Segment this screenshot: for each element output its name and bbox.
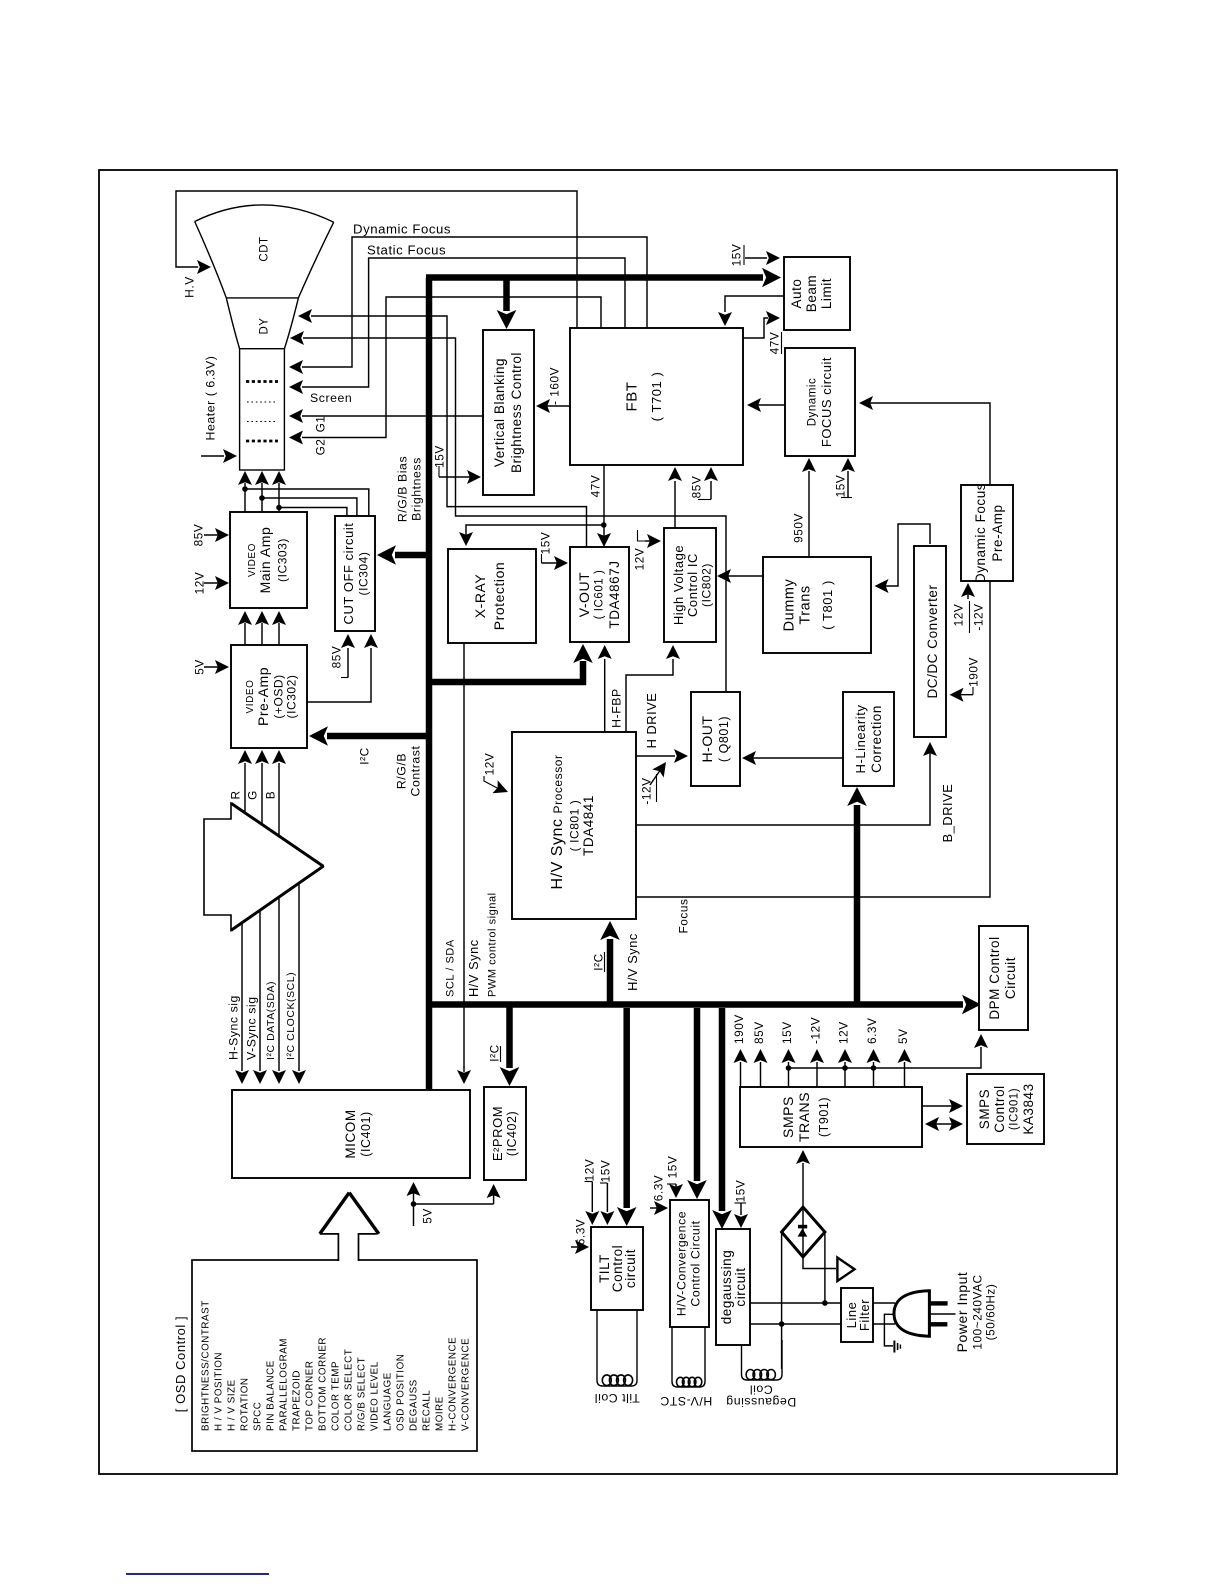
- svg-text:12V: 12V: [837, 1021, 851, 1044]
- svg-text:-12V: -12V: [640, 777, 654, 804]
- block H-OUT Q801: [691, 692, 740, 786]
- power 12V into Video Main Amp: [193, 572, 229, 595]
- svg-text:Vertical Blanking: Vertical Blanking: [492, 358, 507, 467]
- power 85V into Video Main Amp: [192, 524, 229, 547]
- svg-text:Correction: Correction: [869, 705, 884, 773]
- thick supply line to H/V-Convergence control: [687, 1008, 707, 1199]
- svg-text:15V: 15V: [599, 1160, 613, 1183]
- svg-text:12V: 12V: [583, 1159, 597, 1182]
- svg-text:12V: 12V: [952, 604, 966, 627]
- thick bus bottom branch to DPM control: [426, 995, 981, 1015]
- svg-text:Limit: Limit: [819, 278, 834, 309]
- svg-text:47V: 47V: [589, 475, 603, 498]
- block TILT Control circuit: [591, 1227, 643, 1310]
- svg-text:B: B: [264, 791, 278, 799]
- block High Voltage Control IC IC802: [664, 528, 716, 642]
- svg-text:Dummy: Dummy: [781, 578, 797, 631]
- signal input cable block arrow: [204, 803, 323, 930]
- power 15V into TILT control: [599, 1160, 615, 1225]
- svg-text:I²C: I²C: [592, 953, 606, 970]
- svg-text:100~240VAC: 100~240VAC: [971, 1274, 985, 1349]
- labels R/G/B Bias Brightness on bus: [396, 456, 424, 522]
- bridge rectifier diamond with diode: [782, 1207, 825, 1257]
- power 5V into Video Pre-Amp: [193, 659, 229, 675]
- svg-text:85V: 85V: [752, 1021, 766, 1044]
- block Dynamic Focus Pre-Amp: [961, 485, 1013, 581]
- svg-text:15V: 15V: [666, 1156, 680, 1179]
- svg-text:CUT OFF circuit: CUT OFF circuit: [341, 523, 356, 625]
- svg-text:Dynamic: Dynamic: [806, 378, 818, 427]
- svg-text:circuit: circuit: [623, 1249, 638, 1288]
- block Line Filter: [841, 1288, 873, 1342]
- svg-text:H-FBP: H-FBP: [610, 688, 624, 728]
- wire H.V from FBT to CRT anode: [176, 191, 577, 328]
- svg-text:( Q801): ( Q801): [717, 716, 731, 762]
- blue reference underline: [126, 1573, 269, 1575]
- wire DY vertical deflection from V-OUT: [298, 309, 587, 547]
- svg-text:15V: 15V: [834, 475, 848, 498]
- power 12V into TILT control: [583, 1159, 600, 1225]
- wire bridge rectifier to SMPS TRANS: [796, 1150, 810, 1207]
- wire Dummy Trans to High Voltage Control IC: [717, 569, 763, 583]
- svg-text:(IC401): (IC401): [359, 1111, 373, 1157]
- svg-text:85V: 85V: [330, 646, 344, 669]
- wire H DRIVE Sync Processor to H-OUT: [636, 693, 688, 763]
- wire Dynamic Focus from FBT to CRT: [289, 222, 647, 375]
- svg-text:H/V Sync Processor: H/V Sync Processor: [549, 754, 566, 889]
- labels SCL/SDA H/V Sync PWM control signal on bus: [444, 892, 498, 997]
- svg-text:G: G: [246, 790, 260, 800]
- wire Dynamic Focus circuit to FBT: [747, 398, 785, 412]
- SMPS output rails with arrows and labels: [732, 1014, 911, 1087]
- Degaussing Coil: [726, 1340, 796, 1409]
- svg-text:X-RAY: X-RAY: [472, 574, 488, 619]
- block SMPS Control IC901 KA3843: [967, 1074, 1044, 1144]
- svg-text:SMPS: SMPS: [780, 1096, 796, 1138]
- thick arrow I2C to E2PROM: [488, 1004, 520, 1086]
- svg-text:(IC402): (IC402): [505, 1111, 519, 1157]
- svg-text:High Voltage: High Voltage: [671, 545, 686, 625]
- svg-text:85V: 85V: [192, 524, 206, 547]
- svg-text:Filter: Filter: [857, 1299, 872, 1331]
- svg-text:DC/DC Converter: DC/DC Converter: [925, 584, 940, 698]
- svg-text:V-OUT: V-OUT: [576, 572, 592, 618]
- svg-text:[ OSD Control ]: [ OSD Control ]: [173, 1316, 188, 1412]
- power -12V into H-OUT: [640, 758, 672, 805]
- svg-text:(IC302): (IC302): [285, 675, 299, 719]
- svg-text:Brightness Control: Brightness Control: [509, 352, 524, 473]
- svg-text:H-OUT: H-OUT: [699, 715, 715, 762]
- power 85V into FBT: [690, 467, 718, 500]
- block OSD Control menu list: [173, 1260, 477, 1451]
- svg-text:VIDEO LEVEL: VIDEO LEVEL: [369, 1361, 380, 1431]
- svg-text:SCL / SDA: SCL / SDA: [444, 939, 456, 997]
- svg-text:PIN BALANCE: PIN BALANCE: [265, 1360, 276, 1431]
- svg-text:( T701 ): ( T701 ): [649, 372, 664, 422]
- power 15V into Vertical Blanking: [439, 466, 481, 484]
- svg-text:H/V Sync: H/V Sync: [625, 933, 640, 991]
- block VIDEO Main Amp IC303: [230, 512, 307, 608]
- svg-text:I²C: I²C: [358, 747, 372, 764]
- power 12V into High Voltage Control IC: [633, 530, 661, 570]
- svg-text:(IC304): (IC304): [357, 552, 371, 596]
- svg-text:H-CONVERGENCE: H-CONVERGENCE: [447, 1337, 458, 1431]
- thick bus top branch to Auto Beam Limit: [426, 268, 781, 288]
- svg-text:Power Input: Power Input: [954, 1272, 970, 1353]
- svg-text:Auto: Auto: [789, 279, 804, 309]
- svg-text:CDT: CDT: [258, 236, 270, 261]
- block VIDEO Pre-Amp +OSD IC302: [231, 645, 307, 748]
- svg-text:( T801 ): ( T801 ): [820, 580, 835, 630]
- wires Pre-Amp to Main Amp RGB: [238, 611, 286, 644]
- svg-text:R/G/B Bias: R/G/B Bias: [396, 456, 410, 522]
- svg-text:Tilt Coil: Tilt Coil: [594, 1391, 640, 1405]
- svg-text:BRIGHTNESS/CONTRAST: BRIGHTNESS/CONTRAST: [200, 1300, 211, 1431]
- block FBT T701: [570, 328, 743, 465]
- svg-text:Control Circuit: Control Circuit: [689, 1220, 703, 1306]
- wires line filter to plug: [873, 1303, 895, 1324]
- svg-text:I²C: I²C: [488, 1044, 502, 1061]
- CRT funnel CDT DY neck: [195, 205, 334, 470]
- svg-text:R: R: [229, 790, 243, 799]
- svg-text:15V: 15V: [433, 445, 447, 468]
- svg-text:Beam: Beam: [804, 275, 819, 312]
- svg-text:DEGAUSS: DEGAUSS: [408, 1379, 419, 1431]
- mains plug symbol: [894, 1291, 956, 1336]
- svg-text:TDA4867J: TDA4867J: [607, 560, 622, 628]
- block SMPS TRANS T901: [740, 1087, 922, 1147]
- svg-text:Heater ( 6.3V): Heater ( 6.3V): [204, 356, 218, 441]
- svg-text:-12V: -12V: [809, 1017, 823, 1044]
- svg-text:I²C CLOCK(SCL): I²C CLOCK(SCL): [285, 972, 297, 1060]
- thick arrow I2C H/V sync up to Sync Processor: [592, 921, 640, 1002]
- block E2PROM IC402: [484, 1087, 526, 1180]
- wire 950V Dummy Trans to Dynamic Focus circuit: [792, 458, 816, 557]
- wires RGB cathodes neck to Main Amp with junction nodes: [238, 471, 369, 516]
- wire 47V FBT to V-OUT and X-RAY protection with node: [459, 465, 611, 547]
- svg-text:SMPS: SMPS: [977, 1089, 992, 1129]
- svg-text:Degaussing: Degaussing: [726, 1395, 796, 1409]
- svg-text:H/V-STC: H/V-STC: [660, 1394, 712, 1408]
- svg-text:TRANS: TRANS: [796, 1092, 812, 1142]
- svg-text:LANGUAGE: LANGUAGE: [382, 1372, 393, 1431]
- label Power Input 100-240VAC 50/60Hz: [954, 1272, 997, 1353]
- svg-text:Static Focus: Static Focus: [367, 243, 446, 258]
- wire Dynamic Focus Pre-Amp to Dynamic Focus circuit: [859, 396, 990, 485]
- AC output triangle symbol: [803, 1257, 855, 1281]
- svg-text:( IC601 ): ( IC601 ): [593, 570, 605, 620]
- block DPM Control Circuit: [979, 926, 1028, 1030]
- svg-text:ROTATION: ROTATION: [239, 1377, 250, 1431]
- svg-text:V-Sync sig: V-Sync sig: [245, 996, 259, 1060]
- RGB input signal lines into Pre-Amp: [229, 750, 286, 836]
- thick arrow B_DRIVE to H-Linearity Correction: [847, 787, 867, 1002]
- thick supply line to degaussing circuit: [712, 1008, 732, 1229]
- wire 47V FBT to Auto Beam Limit: [743, 311, 782, 354]
- power 5V into MICOM and E2PROM with node: [407, 1182, 501, 1226]
- svg-text:degaussing: degaussing: [719, 1250, 734, 1325]
- svg-text:15V: 15V: [734, 1180, 748, 1203]
- block Dummy Trans T801: [763, 557, 871, 653]
- svg-text:V-CONVERGENCE: V-CONVERGENCE: [460, 1338, 471, 1431]
- svg-text:E²PROM: E²PROM: [490, 1106, 505, 1161]
- svg-text:Circuit: Circuit: [1003, 957, 1018, 999]
- svg-text:H/V Sync: H/V Sync: [466, 939, 481, 997]
- thick arrow to Vertical Blanking Control: [497, 278, 517, 330]
- svg-text:15V: 15V: [539, 532, 553, 555]
- svg-text:H-Sync sig: H-Sync sig: [227, 995, 241, 1060]
- svg-text:G1: G1: [314, 416, 328, 433]
- labels R/G/B Contrast on bus: [395, 746, 423, 797]
- power 15V into V-OUT: [539, 532, 568, 570]
- wire degaussing circuit to line filter upper with node: [750, 1232, 841, 1306]
- svg-text:DPM Control: DPM Control: [987, 936, 1002, 1019]
- svg-text:Screen: Screen: [310, 391, 352, 405]
- wire H-Linearity Correction to H-OUT: [742, 751, 843, 765]
- wire V drive H/V Sync Processor to V-OUT: [598, 645, 612, 732]
- wire G2 from FBT to CRT: [289, 297, 601, 455]
- svg-text:H-Linearity: H-Linearity: [853, 705, 868, 774]
- svg-text:KA3843: KA3843: [1021, 1083, 1036, 1134]
- svg-text:15V: 15V: [730, 244, 744, 267]
- svg-text:(+OSD): (+OSD): [272, 674, 286, 718]
- svg-text:PWM control signal: PWM control signal: [486, 892, 498, 997]
- svg-text:OSD POSITION: OSD POSITION: [395, 1354, 406, 1431]
- block H/V Sync Processor IC801 TDA4841: [512, 732, 636, 919]
- svg-text:H.V: H.V: [183, 276, 197, 298]
- svg-text:B_DRIVE: B_DRIVE: [940, 784, 955, 843]
- svg-text:COLOR TEMP: COLOR TEMP: [330, 1361, 341, 1431]
- power 190V into DC/DC converter: [950, 657, 981, 702]
- power 85V into CUT OFF circuit: [330, 634, 355, 678]
- svg-text:Protection: Protection: [491, 562, 507, 631]
- svg-text:H / V SIZE: H / V SIZE: [226, 1379, 237, 1431]
- block V-OUT IC601 TDA4867J: [570, 547, 629, 642]
- block Dynamic FOCUS circuit: [785, 348, 855, 456]
- wire G1 from Vertical Blanking box to CRT: [289, 409, 483, 432]
- thick bus vertical main control bus: [426, 278, 433, 1090]
- svg-text:( IC801 ): ( IC801 ): [568, 800, 582, 852]
- svg-text:(IC802): (IC802): [700, 563, 714, 607]
- OSD control hollow arrow to MICOM: [320, 1192, 379, 1262]
- svg-text:DY: DY: [258, 317, 270, 334]
- svg-text:RECALL: RECALL: [421, 1390, 432, 1431]
- svg-text:I²C DATA(SDA): I²C DATA(SDA): [265, 981, 277, 1060]
- svg-text:190V: 190V: [967, 657, 981, 687]
- svg-text:Coil: Coil: [749, 1383, 772, 1397]
- svg-text:15V: 15V: [780, 1021, 794, 1044]
- block Auto Beam Limit: [784, 257, 850, 330]
- svg-text:H / V POSITION: H / V POSITION: [213, 1352, 224, 1431]
- power 6.3V into H/V-Convergence control: [650, 1175, 668, 1215]
- svg-text:SPCC: SPCC: [252, 1402, 263, 1431]
- wire Auto Beam Limit to FBT: [718, 296, 784, 326]
- svg-text:Brightness: Brightness: [410, 457, 424, 521]
- wire X-RAY protection to MICOM: [457, 643, 471, 1084]
- earth ground symbol: [884, 1314, 900, 1352]
- wire -160V FBT to Vertical Blanking: [536, 367, 570, 413]
- thick arrow to Video Pre-Amp I2C: [309, 726, 430, 764]
- wire DY horizontal deflection from H-OUT: [290, 331, 726, 692]
- svg-text:190V: 190V: [732, 1014, 746, 1044]
- svg-text:6.3V: 6.3V: [652, 1175, 666, 1201]
- svg-text:950V: 950V: [792, 513, 806, 543]
- block Vertical Blanking Brightness Control: [483, 330, 534, 495]
- svg-text:Pre-Amp: Pre-Amp: [990, 504, 1005, 561]
- power 15V into Auto Beam Limit: [730, 244, 780, 267]
- svg-text:Dynamic Focus: Dynamic Focus: [973, 483, 988, 583]
- svg-text:FBT: FBT: [624, 382, 641, 412]
- wire DC/DC converter to Dummy Trans: [875, 524, 931, 593]
- svg-text:PARALLELOGRAM: PARALLELOGRAM: [278, 1338, 289, 1431]
- wire Focus Sync Processor to Dynamic Focus Pre-Amp: [636, 581, 990, 933]
- svg-text:circuit: circuit: [733, 1267, 748, 1306]
- thick branch to V-OUT: [430, 644, 593, 682]
- svg-text:5V: 5V: [421, 1208, 435, 1224]
- svg-text:TRAPEZOID: TRAPEZOID: [291, 1370, 302, 1431]
- sync and I2C lines input to MICOM: [227, 884, 306, 1085]
- wire Static Focus from FBT to CRT: [289, 243, 625, 395]
- block MICOM IC401: [232, 1090, 470, 1178]
- svg-text:6.3V: 6.3V: [865, 1018, 879, 1044]
- block H-Linearity Correction: [843, 692, 894, 786]
- svg-text:R/G/B: R/G/B: [395, 753, 409, 789]
- thick arrow to CUT OFF circuit: [377, 545, 430, 565]
- block degaussing circuit: [716, 1229, 750, 1345]
- power 12V -12V into Dynamic Focus Pre-Amp: [952, 583, 986, 633]
- svg-text:-12V: -12V: [972, 603, 986, 630]
- block X-RAY Protection: [448, 549, 536, 643]
- svg-text:12V: 12V: [633, 548, 647, 571]
- svg-text:G2: G2: [314, 439, 328, 456]
- svg-text:TDA4841: TDA4841: [581, 795, 596, 856]
- svg-text:Main Amp: Main Amp: [257, 527, 273, 594]
- svg-text:(IC303): (IC303): [276, 538, 290, 582]
- svg-text:Control: Control: [992, 1085, 1007, 1132]
- svg-text:12V: 12V: [483, 753, 497, 776]
- wire B_DRIVE Sync Processor to DC/DC converter: [636, 742, 955, 842]
- power 15V into degaussing circuit: [734, 1180, 748, 1228]
- wires SMPS TRANS to SMPS control: [922, 1099, 963, 1131]
- svg-text:(50/60Hz): (50/60Hz): [984, 1284, 998, 1341]
- power 15V into H/V-Convergence control: [666, 1156, 683, 1198]
- block DC/DC Converter: [914, 546, 946, 737]
- wire heater supply arrow into neck: [201, 449, 237, 463]
- svg-text:BOTTOM CORNER: BOTTOM CORNER: [317, 1337, 328, 1431]
- power 15V into Dynamic Focus circuit: [834, 458, 855, 498]
- svg-text:Dynamic Focus: Dynamic Focus: [353, 222, 451, 237]
- H/V-STC coil: [660, 1327, 712, 1408]
- block H/V-Convergence Control Circuit: [670, 1200, 709, 1327]
- svg-text:Focus: Focus: [677, 899, 691, 934]
- svg-text:(IC901): (IC901): [1008, 1088, 1020, 1130]
- rail 15V/12V/6.3V to DPM control with nodes: [786, 1034, 988, 1071]
- svg-text:85V: 85V: [690, 476, 704, 499]
- svg-text:- 160V: - 160V: [548, 367, 562, 405]
- svg-text:H DRIVE: H DRIVE: [644, 693, 659, 749]
- svg-text:R/G/B SELECT: R/G/B SELECT: [356, 1357, 367, 1431]
- svg-text:Contrast: Contrast: [409, 746, 423, 797]
- svg-text:COLOR SELECT: COLOR SELECT: [343, 1349, 354, 1431]
- thick supply line to TILT control: [617, 1008, 637, 1226]
- svg-text:(T901): (T901): [817, 1097, 831, 1137]
- wire Pre-Amp to CUT OFF circuit: [307, 634, 378, 702]
- svg-text:MOIRE: MOIRE: [434, 1396, 445, 1431]
- heater filament dashes inside neck: [246, 382, 278, 442]
- svg-text:H/V-Convergence: H/V-Convergence: [675, 1211, 689, 1316]
- svg-text:Control IC: Control IC: [685, 553, 700, 617]
- svg-text:5V: 5V: [896, 1028, 910, 1044]
- wire High Voltage Control IC to FBT: [668, 467, 682, 528]
- Tilt Coil: [594, 1310, 640, 1405]
- svg-text:47V: 47V: [768, 332, 782, 355]
- svg-text:TOP CORNER: TOP CORNER: [304, 1361, 315, 1431]
- svg-text:MICOM: MICOM: [343, 1109, 358, 1158]
- block CUT OFF circuit IC304: [335, 516, 375, 631]
- svg-text:Trans: Trans: [797, 585, 813, 624]
- wire H-FBP Sync Processor to High Voltage Control: [610, 645, 680, 732]
- svg-text:FOCUS circuit: FOCUS circuit: [819, 357, 834, 447]
- power 6.3V into TILT control: [571, 1219, 589, 1254]
- wire degaussing circuit to line filter lower with node: [750, 1232, 841, 1369]
- power 12V into Sync Processor: [483, 753, 511, 799]
- svg-text:Pre-Amp: Pre-Amp: [255, 667, 271, 726]
